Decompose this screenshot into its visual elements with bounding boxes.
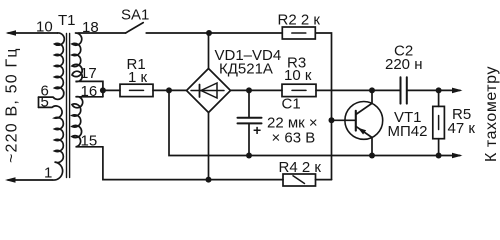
wire: pin 15 down to bottom rail xyxy=(103,147,283,180)
transformer T1 primary winding upper (pins 10-6) xyxy=(39,33,65,99)
node: mains arrow top xyxy=(6,30,17,36)
wire: bridge bottom vertical to bottom rail xyxy=(208,113,210,180)
wire: R2 right lead down long vertical to R4 xyxy=(315,33,331,180)
resistor R3 10 к xyxy=(282,84,316,96)
transformer T1 secondary winding lower (pins 16-15) xyxy=(72,97,103,147)
wire: junction down to mid rail xyxy=(169,90,460,155)
svg-text:T1: T1 xyxy=(58,12,76,29)
svg-text:C1: C1 xyxy=(282,96,301,113)
node: junction base node xyxy=(329,117,335,123)
wire: switch to bridge top xyxy=(146,32,282,34)
svg-text:× 63 В: × 63 В xyxy=(272,130,316,147)
wire: bridge top vertical xyxy=(208,33,210,69)
svg-text:SA1: SA1 xyxy=(121,7,149,24)
svg-text:47 к: 47 к xyxy=(448,120,476,137)
transformer T1 primary winding lower (pins 5-1) xyxy=(39,106,64,180)
svg-text:R2 2 к: R2 2 к xyxy=(278,12,321,29)
resistor R5 47 к vertical xyxy=(438,90,440,106)
svg-text:+: + xyxy=(253,122,261,138)
transformer T1 core xyxy=(66,34,68,178)
svg-text:~220 В, 50 Гц: ~220 В, 50 Гц xyxy=(4,47,21,163)
svg-text:18: 18 xyxy=(82,19,99,36)
diode bridge VD1-VD4 diamond xyxy=(187,69,231,113)
svg-text:1: 1 xyxy=(44,165,52,182)
resistor R1 1 к xyxy=(120,84,153,96)
node: mains arrow bottom xyxy=(5,177,16,183)
wire: R4 right lead to long vertical xyxy=(316,179,332,181)
node: junction collector xyxy=(369,87,375,93)
svg-text:К тахометру: К тахометру xyxy=(483,66,500,162)
wire: R3 to collector junction and C2 xyxy=(316,89,401,91)
node: junction R5 top xyxy=(436,87,442,93)
svg-text:17: 17 xyxy=(80,65,97,82)
node: junction bridge bottom / bottom rail xyxy=(206,177,212,183)
transistor collector xyxy=(356,90,372,114)
wire: bridge right vertex to R3 xyxy=(231,89,283,91)
svg-text:МП42: МП42 xyxy=(388,123,428,140)
node: junction pins 17/16 xyxy=(100,87,106,93)
node: junction emitter / mid rail xyxy=(369,153,375,159)
wire: base lead xyxy=(332,119,356,121)
capacitor C1 22 мк 63 В xyxy=(248,90,250,117)
node: junction top rail / bridge top xyxy=(206,30,212,36)
svg-text:220 н: 220 н xyxy=(385,56,422,73)
transistor emitter with arrow xyxy=(356,126,372,155)
wire: main rail pin16/17 junction to R1 xyxy=(103,89,120,91)
node: mid rail arrow right xyxy=(452,153,463,159)
node: junction C1 top xyxy=(246,87,252,93)
transistor VT1 МП42 circle xyxy=(345,102,383,140)
node: junction C1 bottom xyxy=(246,153,252,159)
svg-text:10: 10 xyxy=(36,19,53,36)
svg-text:1 к: 1 к xyxy=(128,69,148,86)
node: junction R5 bottom xyxy=(436,153,442,159)
transistor base bar xyxy=(355,111,357,131)
resistor R4 2 к xyxy=(283,174,316,186)
node: junction R1 output xyxy=(166,87,172,93)
svg-text:16: 16 xyxy=(81,83,98,100)
wire: top rail pin18 to switch xyxy=(78,32,126,34)
wire: mains bottom lead from pin 1 xyxy=(8,179,52,181)
wire: mains top lead to pin 10 xyxy=(8,32,58,34)
svg-text:15: 15 xyxy=(81,133,98,150)
resistor R2 2 к xyxy=(282,27,315,39)
wire: R1 to bridge left vertex xyxy=(153,89,187,91)
svg-text:КД521А: КД521А xyxy=(219,61,273,78)
transformer T1 secondary winding upper (pins 18-17) xyxy=(72,33,103,97)
capacitor C2 220 н xyxy=(400,77,402,103)
node: main rail arrow right xyxy=(452,88,463,94)
svg-text:5: 5 xyxy=(41,94,49,111)
wire: jumper pins 6-5 xyxy=(38,97,40,107)
wire: C2 to R5 top and output arrow xyxy=(407,89,460,91)
svg-text:10 к: 10 к xyxy=(284,67,312,84)
svg-text:R4 2 к: R4 2 к xyxy=(279,159,322,176)
diode symbol inside bridge xyxy=(191,90,224,92)
switch SA1 xyxy=(126,23,144,33)
